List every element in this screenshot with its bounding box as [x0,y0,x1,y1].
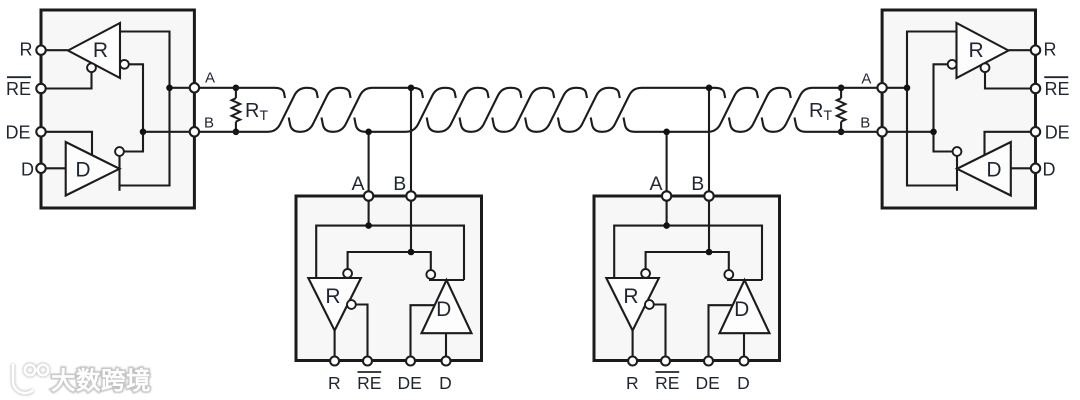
wire RE pin to enable bubble [985,72,1036,88]
termination resistor RT (left) [235,88,237,98]
overline RE [7,76,31,78]
pin RE terminal [661,357,670,366]
svg-text:D: D [1043,159,1056,179]
driver output bar [118,156,120,191]
pin R terminal [1031,46,1040,55]
driver inverting output bubble [953,147,962,156]
receiver inverting input bubble [641,269,650,278]
pin R terminal [36,46,45,55]
stub transceiver U2 [296,191,482,365]
wire cable tap A to U3 [666,132,668,192]
pin B terminal [704,191,713,200]
junction dot [838,129,845,136]
svg-text:D: D [439,373,452,393]
wire cable tap A to U2 [368,132,370,192]
junction dot [233,129,240,136]
wire R output to pin R [1009,49,1036,51]
wire receiver A-input / driver Y-output bus (outer) [120,32,170,186]
svg-text:A: A [649,173,662,195]
node A junction [166,85,173,92]
watermark logo [13,364,48,393]
receiver inverting input bubble [343,269,352,278]
node B junction [140,129,147,136]
junction tap B U2 [408,85,415,92]
svg-text:RE: RE [6,79,31,99]
pin A terminal [190,83,199,92]
pin D terminal [740,357,749,366]
svg-text:A: A [861,70,871,87]
svg-text:RE: RE [1045,79,1070,99]
junction dot [233,85,240,92]
svg-text:A: A [205,69,215,86]
wire A net to receiver input and driver output [316,226,464,280]
wire DE pin to driver enable [985,132,1036,155]
svg-text:RE: RE [357,373,381,393]
pin R terminal [330,357,339,366]
pin DE terminal [1031,127,1040,136]
pin D terminal [36,164,45,173]
wire B node to terminal [143,131,194,133]
svg-text:B: B [691,173,704,195]
wire A net to receiver input and driver output [614,226,762,280]
receiver enable bubble [645,300,654,309]
svg-text:R: R [325,285,340,308]
wire A node to terminal [882,87,907,89]
stub transceiver U3 [594,191,780,365]
wire DE pin to driver enable [41,132,92,155]
pin B terminal [877,127,886,136]
svg-text:B: B [860,114,870,131]
wire 1 of twisted pair (twisted-pair conductor) [199,88,878,132]
pin RE terminal [363,357,372,366]
node A junction [904,85,911,92]
pin B terminal [190,127,199,136]
driver D triangle [957,142,1011,196]
pin A terminal [662,191,671,200]
svg-text:DE: DE [5,123,30,143]
svg-text:R: R [328,373,341,393]
transceiver box U1 outline [41,10,194,208]
left transceiver U1 [36,10,199,208]
svg-text:RT: RT [809,100,832,123]
receiver R triangle [957,23,1009,78]
wire B net to receiver bubble and driver bubble [348,252,431,270]
svg-text:A: A [351,173,364,195]
pin DE terminal [406,357,415,366]
wire B node to terminal [882,131,933,133]
receiver inverting input bubble [948,60,957,69]
pin DE terminal [36,127,45,136]
transceiver box U1 outline [882,10,1035,208]
receiver R triangle [68,23,120,78]
wire A terminal drop [368,201,370,226]
svg-text:R: R [20,40,33,60]
pin A terminal [877,83,886,92]
receiver R triangle [606,278,659,331]
svg-text:R: R [623,285,638,308]
wire RE pin to enable bubble [41,72,92,88]
wire receiver B-input / driver Z-output bus (inner) [934,64,953,151]
pin D terminal [442,357,451,366]
svg-text:B: B [393,173,406,195]
overline RE stub [358,371,382,373]
pin B terminal [406,191,415,200]
driver inverting output bubble [724,270,733,279]
wire D pin to driver input [1011,167,1036,169]
right transceiver U4 (mirrored) [877,10,1040,208]
wire receiver output to R pin [334,331,336,362]
wire B terminal drop [410,201,412,252]
junction tap A U3 [663,129,670,136]
svg-text:RE: RE [655,373,679,393]
wire RE pin to receiver enable bubble [356,305,368,362]
receiver enable bubble [87,63,96,72]
svg-text:R: R [93,39,108,62]
wire DE pin to driver enable [709,305,733,361]
node A junction [365,222,372,229]
svg-text:D: D [737,373,750,393]
wire cable tap B to U2 [410,88,412,192]
driver D triangle [422,280,472,333]
junction tap B U3 [706,85,713,92]
node B junction [930,129,937,136]
driver output bar [727,279,762,281]
stub transceiver box outline [594,196,780,361]
svg-text:B: B [204,114,214,131]
driver output bar [956,156,958,191]
wire receiver output to R pin [632,331,634,362]
pin D terminal [1031,164,1040,173]
driver D triangle [720,280,770,333]
wire A terminal drop [666,201,668,226]
overline RE right [1044,76,1068,78]
wire 2 of twisted pair (twisted-pair conductor) [199,88,878,132]
driver inverting output bubble [426,270,435,279]
wire A node to terminal [170,87,195,89]
wire receiver A-input / driver Y-output bus (outer) [907,32,957,186]
receiver inverting input bubble [120,60,129,69]
wire B net to receiver bubble and driver bubble [646,252,729,270]
wire cable tap B to U3 [708,88,710,192]
node B junction [706,249,713,256]
receiver enable bubble [347,300,356,309]
junction tap A U2 [365,129,372,136]
svg-text:D: D [734,298,749,321]
wire D pin to driver input [41,167,66,169]
wire D pin to driver input [743,333,745,361]
receiver enable bubble [981,63,990,72]
svg-text:大数跨境: 大数跨境 [51,366,151,395]
svg-text:DE: DE [696,373,720,393]
node B junction [408,249,415,256]
wire receiver B-input / driver Z-output bus (inner) [124,64,143,151]
wire D pin to driver input [445,333,447,361]
driver inverting output bubble [115,147,124,156]
pin A terminal [364,191,373,200]
pin DE terminal [704,357,713,366]
node A junction [663,222,670,229]
svg-text:DE: DE [1045,123,1070,143]
overline RE stub [656,371,680,373]
wire B terminal drop [708,201,710,252]
termination resistor RT (right) [840,88,842,98]
svg-text:D: D [986,159,1001,182]
pin RE terminal [36,84,45,93]
svg-text:R: R [969,39,984,62]
svg-text:DE: DE [398,373,422,393]
svg-text:D: D [75,159,90,182]
receiver R triangle [308,278,361,331]
driver D triangle [66,142,120,196]
svg-text:RT: RT [245,100,268,123]
wire RE pin to receiver enable bubble [654,305,666,362]
junction dot [838,85,845,92]
stub transceiver box outline [296,196,482,361]
svg-text:R: R [626,373,639,393]
wire DE pin to driver enable [411,305,435,361]
svg-text:R: R [1044,40,1057,60]
wire R output to pin R [41,49,68,51]
driver output bar [429,279,464,281]
pin R terminal [628,357,637,366]
pin RE terminal [1031,84,1040,93]
svg-text:D: D [21,159,34,179]
svg-text:D: D [436,298,451,321]
